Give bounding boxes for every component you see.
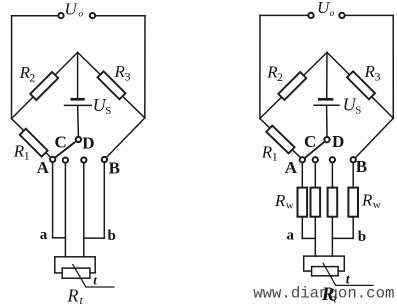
lead resistor Rw3 body (right circuit): [328, 188, 338, 217]
wire: battery to node D circle (right circuit): [326, 106, 328, 137]
thermistor temperature stroke with bent tail (right circuit): [323, 263, 373, 285]
wire: terminal two to lead resistor Rw2 (right circuit): [314, 163, 316, 188]
wire: Rw3 down to sensor housing (right circuit): [331, 217, 333, 256]
terminal circle right of Uo (right circuit): [339, 13, 344, 18]
label R3 (right circuit): [364, 62, 381, 84]
wire: center column, top vertex to battery (right circuit): [326, 52, 328, 98]
terminal circle three (right circuit): [330, 157, 335, 162]
label Us (left circuit): [93, 95, 112, 117]
terminal circle under C (left circuit): [63, 157, 68, 162]
sensor housing box (right circuit): [304, 256, 345, 271]
wire: jog at junction b (left circuit): [84, 237, 105, 239]
wire: bridge arm upper-right (right circuit): [327, 52, 393, 118]
wire: Rw1 down to junction a (right circuit): [301, 217, 303, 239]
label R3 (left circuit): [114, 62, 131, 84]
resistor R1 body (right circuit): [266, 126, 294, 154]
node B terminal circle (right circuit): [351, 157, 356, 162]
label Uo (left circuit): [65, 0, 84, 20]
svg-text:R: R: [274, 191, 286, 210]
wire: right side vertical (left circuit): [144, 16, 146, 118]
wire: left side vertical (left circuit): [11, 16, 13, 119]
svg-text:C: C: [55, 133, 67, 152]
wire: bridge arm lower-left, to node A (right circuit): [260, 119, 303, 160]
svg-text:D: D: [82, 133, 94, 152]
label R1 (left circuit): [13, 142, 30, 163]
wire: Rw4 down to junction b (right circuit): [352, 217, 354, 239]
wire: left side vertical (right circuit): [259, 15, 261, 118]
terminal circle under D (left circuit): [81, 157, 86, 162]
svg-text:R: R: [361, 191, 373, 210]
label Rw left (right circuit): [274, 191, 294, 212]
wire: bridge arm upper-left, left vertex to top vertex (left circuit): [12, 52, 78, 118]
wire: bridge arm lower-right, to node B (right circuit): [353, 118, 393, 160]
resistor R3 body (right circuit): [347, 71, 375, 99]
svg-text:C: C: [304, 132, 316, 151]
wire: bridge arm lower-left, left vertex to node A (left circuit): [12, 119, 53, 160]
lead resistor Rw4 body (right circuit): [348, 188, 358, 217]
svg-text:R: R: [67, 286, 79, 306]
battery Us negative plate long thin bar (left circuit): [65, 104, 92, 106]
label Rt (left circuit): [67, 286, 84, 306]
wire: top-right horizontal lead (right circuit): [345, 14, 393, 16]
label Us (right circuit): [343, 95, 362, 117]
wire: center column, top vertex to battery (left circuit): [77, 52, 79, 98]
wire: bridge arm lower-right, right vertex to node B (left circuit): [104, 118, 144, 160]
lead resistor Rw1 body (right circuit): [298, 188, 308, 217]
svg-text:a: a: [287, 227, 295, 243]
wire: terminal three to lead resistor Rw3 (right circuit): [331, 163, 333, 188]
svg-text:b: b: [358, 229, 366, 245]
terminal circle left of Uo (right circuit): [308, 13, 313, 18]
svg-text:U: U: [65, 0, 79, 19]
sensor housing box (left circuit): [55, 257, 95, 273]
battery Us positive plate short thick bar (left circuit): [71, 98, 85, 101]
wire: jog at junction a (right circuit): [302, 237, 315, 239]
link wire from node D to node A (left circuit): [55, 141, 77, 158]
resistor R2 body (left circuit): [30, 72, 58, 100]
resistor R2 body (right circuit): [278, 72, 306, 100]
svg-text:w: w: [286, 200, 294, 212]
label Uo (right circuit): [317, 0, 335, 19]
wire: jog at junction a (left circuit): [53, 237, 66, 239]
thermistor Rt body (right circuit): [312, 267, 339, 276]
wire: from terminal C down to sensor housing (left circuit): [64, 163, 66, 257]
node D terminal circle (left circuit): [76, 137, 81, 142]
label R2 (right circuit): [266, 63, 283, 85]
svg-text:A: A: [37, 158, 50, 177]
svg-text:1: 1: [24, 149, 30, 163]
wire: node B to lead resistor Rw4 (right circuit): [352, 163, 354, 188]
wire: from terminal D down to sensor housing (left circuit): [83, 163, 85, 257]
wire: bridge arm upper-left (right circuit): [260, 52, 327, 118]
svg-text:B: B: [109, 159, 120, 178]
wire: bridge arm upper-right, top vertex to right vertex (left circuit): [78, 52, 145, 118]
wire: from node A down to junction a (left circuit): [52, 163, 54, 238]
wire: from node B down to junction b (left circuit): [103, 163, 105, 239]
svg-text:S: S: [105, 105, 111, 117]
svg-text:3: 3: [125, 70, 131, 84]
svg-text:2: 2: [277, 70, 283, 84]
wire: battery to node D circle (left circuit): [77, 106, 80, 136]
wire: Rw2 down to sensor housing (right circuit): [314, 217, 316, 256]
svg-text:o: o: [330, 9, 335, 19]
resistor R1 body (left circuit): [20, 129, 48, 157]
lead resistor Rw2 body (right circuit): [311, 188, 321, 217]
label R1 (right circuit): [261, 143, 278, 164]
svg-text:b: b: [108, 228, 116, 244]
node A terminal circle (right circuit): [300, 157, 305, 162]
battery Us positive plate short thick bar (right circuit): [318, 98, 333, 101]
terminal circle two (right circuit): [313, 157, 318, 162]
node D terminal circle (right circuit): [324, 137, 329, 142]
svg-text:a: a: [40, 227, 48, 243]
svg-text:t: t: [80, 293, 84, 306]
battery Us negative plate long thin bar (right circuit): [314, 104, 339, 106]
label Rw right (right circuit): [361, 191, 381, 212]
label Rt (right circuit): [321, 284, 338, 305]
svg-text:S: S: [355, 105, 361, 117]
node A terminal circle (left circuit): [50, 157, 55, 162]
wire: top-left horizontal lead (right circuit): [260, 14, 308, 16]
thermistor temperature stroke with bent tail (left circuit): [73, 265, 114, 287]
svg-text:2: 2: [29, 71, 35, 85]
svg-text:D: D: [332, 132, 344, 151]
svg-text:t: t: [93, 273, 97, 288]
link wire from node D to node A (right circuit): [305, 141, 325, 158]
terminal circle left of Uo (left circuit): [58, 13, 63, 18]
wire: right side vertical (right circuit): [392, 15, 394, 118]
svg-text:o: o: [78, 10, 83, 20]
node B terminal circle (left circuit): [102, 157, 107, 162]
svg-text:w: w: [373, 199, 381, 211]
terminal circle right of Uo (left circuit): [90, 13, 95, 18]
svg-text:R: R: [321, 284, 335, 305]
wire: top-right horizontal lead (left circuit): [96, 15, 145, 17]
svg-text:B: B: [356, 157, 367, 176]
svg-text:3: 3: [375, 69, 381, 83]
resistor R3 body (left circuit): [97, 71, 125, 99]
thermistor Rt body (left circuit): [62, 268, 90, 278]
svg-text:1: 1: [272, 150, 278, 164]
svg-text:A: A: [285, 158, 298, 177]
wire: node A to lead resistor Rw1 (right circuit): [301, 163, 303, 188]
label R2 (left circuit): [19, 63, 36, 85]
wire: jog at junction b (right circuit): [332, 237, 353, 239]
wire: top-left horizontal lead (left circuit): [12, 15, 58, 17]
